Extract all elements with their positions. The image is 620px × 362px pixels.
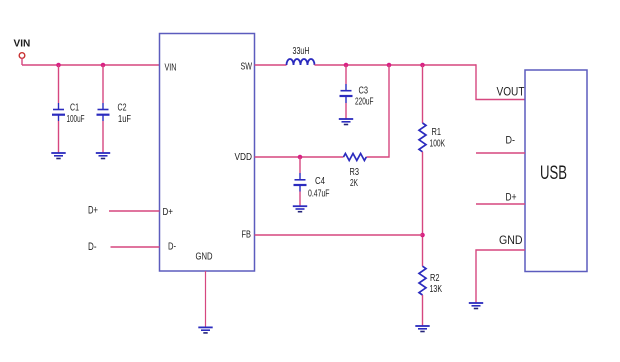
junction at C4 (298, 155, 303, 160)
D- stub on USB (476, 152, 525, 154)
junction at C2 (101, 63, 106, 68)
D+ stub on USB (476, 203, 525, 205)
svg-text:33uH: 33uH (293, 46, 310, 57)
capacitor C3 (340, 84, 353, 103)
wire R1 to FB node (422, 152, 424, 266)
wire C1 upper lead (58, 65, 60, 103)
R2 value labels (430, 273, 443, 295)
resistor R1 (419, 123, 426, 152)
ground below USB GND (469, 303, 483, 309)
wire VIN rail to IC (22, 64, 160, 66)
svg-text:GND: GND (499, 235, 523, 247)
svg-text:D-: D- (506, 135, 516, 147)
junction FB node (420, 233, 425, 238)
svg-text:220uF: 220uF (355, 97, 374, 108)
ground below C1 (51, 153, 65, 159)
ground below IC (198, 327, 212, 333)
wire R2 to ground (422, 295, 424, 326)
op IC U1 box (160, 34, 255, 272)
svg-text:C2: C2 (118, 103, 127, 114)
ground below R2 (415, 326, 429, 332)
svg-text:100uF: 100uF (67, 114, 85, 125)
svg-text:R1: R1 (432, 127, 442, 138)
inductor L1 33uH (287, 59, 315, 65)
svg-text:C1: C1 (70, 103, 79, 114)
R1 value labels (430, 127, 446, 150)
ground below C3 (339, 119, 353, 125)
wire rail to R1 (422, 65, 424, 123)
C3 value labels (355, 86, 374, 108)
svg-text:C3: C3 (359, 86, 369, 97)
svg-text:VDD: VDD (235, 152, 253, 163)
junction at C3 (344, 63, 349, 68)
junction feedback tap on rail (387, 63, 392, 68)
wire C3 lower lead (345, 103, 347, 119)
wire C4 lower lead (299, 192, 301, 207)
svg-text:VIN: VIN (165, 63, 177, 74)
svg-text:2K: 2K (350, 178, 358, 189)
junction at R1 branch (420, 63, 425, 68)
capacitor C2 (97, 103, 110, 121)
USB connector box (525, 70, 587, 272)
wire SW to inductor (255, 64, 287, 66)
svg-text:VOUT: VOUT (497, 85, 526, 99)
svg-text:D-: D- (88, 241, 97, 253)
svg-text:FB: FB (242, 230, 252, 241)
wire output rail (315, 64, 477, 66)
R3 value labels (350, 167, 360, 189)
svg-text:D+: D+ (163, 207, 174, 218)
wire C2 lower lead (102, 121, 104, 153)
ground below C4 (293, 206, 307, 212)
wire FB (255, 234, 423, 236)
svg-text:GND: GND (196, 252, 213, 263)
C2 value labels (118, 103, 132, 126)
wire D- to IC (111, 246, 160, 248)
svg-text:D+: D+ (88, 205, 98, 217)
svg-text:USB: USB (540, 163, 567, 184)
ground below C2 (96, 153, 110, 159)
wire C4 upper lead (299, 157, 301, 173)
capacitor C4 (294, 173, 307, 192)
wire VOUT drop to USB (476, 64, 525, 99)
wire IC GND pin to ground (205, 271, 207, 327)
resistor R3 (344, 154, 367, 161)
wire C3 upper lead (345, 65, 347, 84)
svg-text:0.47uF: 0.47uF (308, 189, 330, 200)
svg-text:C4: C4 (315, 176, 325, 187)
svg-text:SW: SW (241, 62, 253, 73)
svg-text:R3: R3 (350, 167, 360, 178)
resistor R2 (419, 266, 426, 295)
wire from rail down to R3 (366, 65, 389, 157)
svg-text:R2: R2 (430, 273, 440, 284)
svg-text:D+: D+ (506, 192, 517, 204)
wire USB GND to ground (476, 250, 525, 303)
svg-text:D-: D- (168, 242, 176, 253)
svg-text:VIN: VIN (14, 39, 31, 50)
C4 value labels (308, 176, 330, 200)
capacitor C1 (52, 103, 65, 121)
junction at C1 (56, 63, 61, 68)
wire C2 upper lead (102, 65, 104, 103)
C1 value labels (67, 103, 85, 126)
wire C1 lower lead (58, 121, 60, 153)
svg-text:100K: 100K (430, 139, 446, 150)
svg-text:13K: 13K (430, 284, 443, 295)
wire D+ to IC (109, 210, 160, 212)
svg-text:1uF: 1uF (118, 114, 131, 125)
node VIN terminal (19, 53, 25, 65)
wire VDD rail (255, 156, 344, 158)
